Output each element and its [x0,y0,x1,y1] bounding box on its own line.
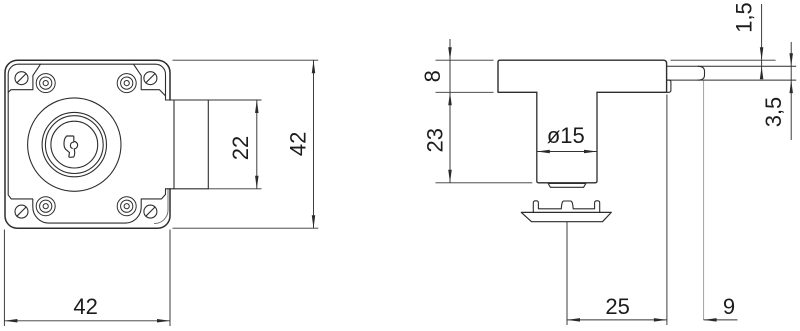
arrow diameter15 right [584,150,597,154]
dim line diameter 15 [537,151,597,153]
screw top-left [15,72,28,85]
screw bottom-right [144,205,157,218]
keyhole outline [64,136,78,157]
ext line plate bottom left [436,91,494,93]
arrow 42 bottom right [157,319,170,323]
center line cylinder axis [566,222,568,325]
cylinder bottom ring [548,184,586,188]
side view cylinder [537,92,597,183]
arrow 22 bottom [255,176,258,189]
arrow 1,5 top outside [760,47,764,60]
ext line body bottom-left down [3,230,5,327]
ext line top of body to 42 dim [173,59,319,61]
arrow diameter15 left [537,150,550,154]
arrow 42 bottom left [4,319,17,323]
latch front near vertical [173,100,175,189]
dim line 3,5 [790,42,792,140]
arrow 25 right / 9 left shared [654,318,667,322]
arrow 3,5 bottom outside [789,80,793,93]
ext line body bottom-right down [169,230,171,327]
svg-text:1,5: 1,5 [731,2,756,33]
svg-text:9: 9 [723,294,735,319]
dim line 22 [256,100,258,189]
side latch guide tab [667,80,671,92]
cylinder ring outer [42,112,106,176]
arrow 9 right outside [704,318,717,322]
keyhole lobe inner arc [70,142,73,148]
svg-text:22: 22 [228,136,253,160]
arrow 25 left [567,318,580,322]
arrow 23 bottom [448,170,452,183]
ext line plate face down [666,95,668,326]
cylinder ring middle [45,116,103,174]
cylinder ring inner [51,121,98,168]
ext line plate top to 1,5 dim [671,59,776,61]
rivet bottom-left [36,197,55,216]
lock inner plate outline [8,64,165,223]
latch front bottom edge [166,188,209,190]
ext line latch end down (gray) [703,81,705,321]
svg-text:23: 23 [423,128,448,152]
svg-text:3,5: 3,5 [761,97,786,128]
rivet top-right [117,74,136,93]
side latch top edge [667,65,796,67]
arrow 1,5 bottom outside [760,66,764,79]
arrow 8 top outside [448,47,452,60]
svg-text:8: 8 [420,70,445,82]
arrow 22 top [255,100,258,113]
rivet bottom-right [117,197,136,216]
latch front end vertical [207,100,209,189]
dim line 25 [567,319,667,321]
svg-text:42: 42 [285,132,310,156]
dim line 42 bottom [4,320,170,322]
side latch bottom edge [667,79,796,81]
ext line plate top left [436,59,494,61]
dim line 8 and 23 [449,39,451,183]
screw bottom-left [15,205,28,218]
flange left tab [533,201,599,213]
arrow 42 right bottom [312,215,316,228]
screw top-right [144,72,157,85]
ext line bottom of body to 42 dim [173,227,319,229]
inner plate top-left pocket [8,64,40,92]
side view mounting plate [498,60,667,92]
arrow 42 right top [312,60,316,73]
dim line 1,5 [761,4,763,78]
inner plate top-right pocket [134,64,166,96]
inner plate fold line below latch [155,189,169,224]
dim line 9 [704,319,738,321]
lock body outer outline [5,60,170,228]
svg-text:25: 25 [605,294,629,319]
flange dish [521,212,611,221]
ext line latch top to 22 dim [208,99,261,101]
side latch rounded end [698,66,705,80]
ext line cylinder bottom left [436,182,533,184]
svg-text:42: 42 [73,294,97,319]
ext line latch bottom to 22 dim [208,188,261,190]
arrow 3,5 top outside [789,53,793,66]
cylinder boss circle [28,98,121,191]
arrow 8 bottom / 23 top outside [448,92,452,105]
latch front top edge [166,99,209,101]
svg-text:ø15: ø15 [547,123,585,148]
dim line 42 right [313,60,315,228]
rivet top-left [36,74,55,93]
